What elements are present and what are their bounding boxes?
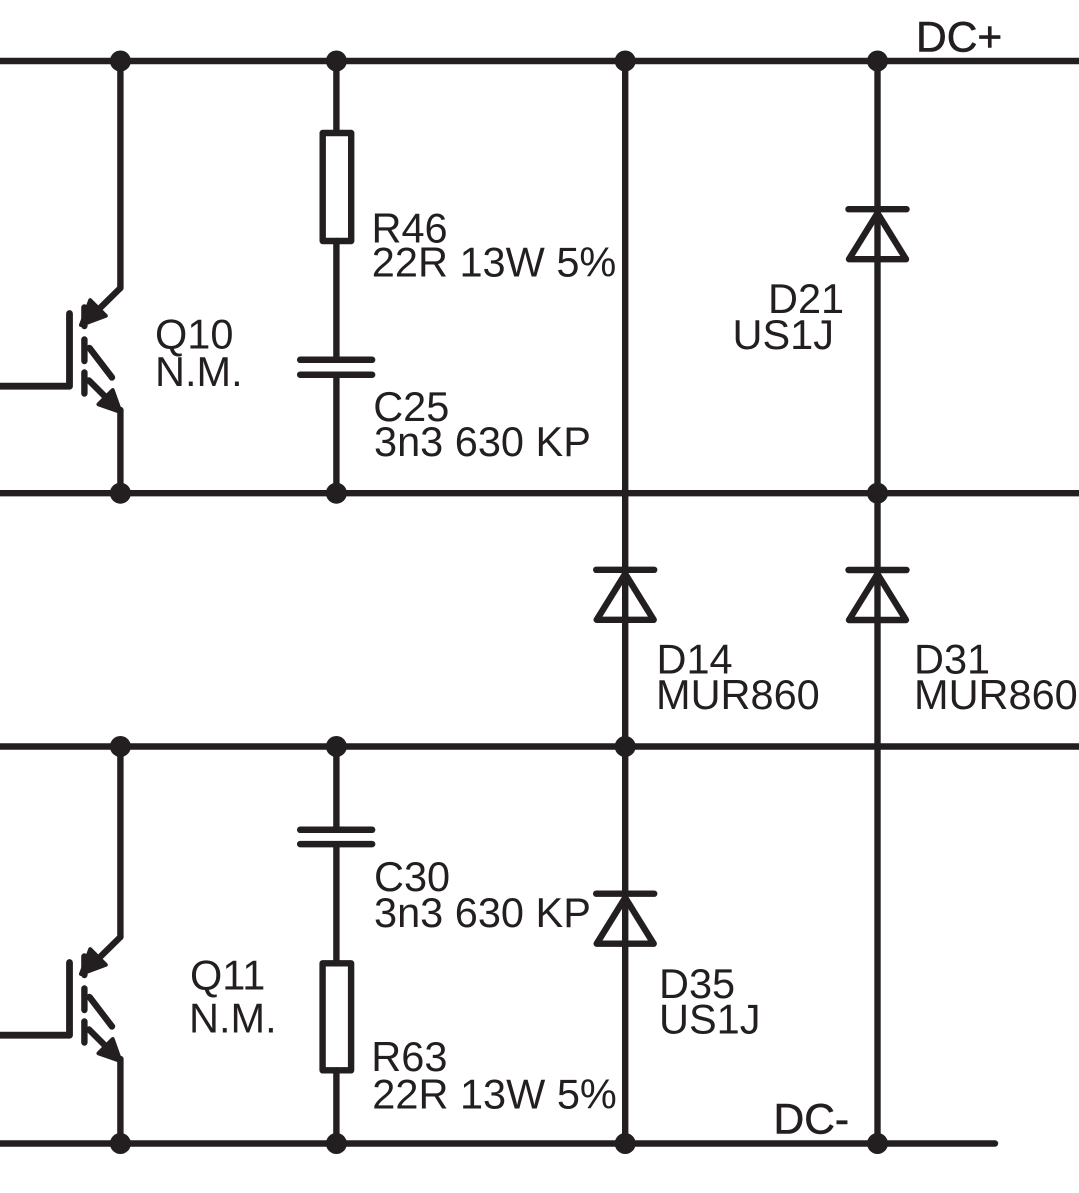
svg-text:N.M.: N.M. (155, 348, 243, 395)
junction rail2-colD (867, 483, 888, 504)
junction rail1-colC (615, 51, 636, 72)
junction rail1-colD (867, 51, 888, 72)
wire column D vertical (D21/D31 branch) (874, 61, 880, 1144)
diode D14 MUR860 (596, 570, 654, 620)
svg-text:Q11: Q11 (190, 952, 265, 999)
junction rail2-colA (110, 483, 131, 504)
junction rail3-colA (110, 736, 131, 757)
svg-text:US1J: US1J (733, 311, 834, 358)
capacitor C30 (300, 830, 372, 844)
diode D21 US1J (849, 209, 907, 259)
svg-text:MUR860: MUR860 (656, 671, 820, 718)
svg-text:3n3 630 KP: 3n3 630 KP (374, 889, 591, 936)
wire R46 to C25 (333, 241, 339, 357)
junction rail3-colC (615, 736, 636, 757)
transistor Q10 (IGBT, not mounted) (0, 61, 121, 493)
wire mid-lower rail (0, 743, 1079, 749)
junction rail2-colB (326, 483, 347, 504)
wire R63 bottom lead (333, 1070, 339, 1143)
junction rail3-colB (326, 736, 347, 757)
capacitor C25 (300, 360, 372, 375)
svg-text:MUR860: MUR860 (914, 671, 1078, 718)
svg-text:22R 13W 5%: 22R 13W 5% (372, 1071, 617, 1118)
wire C25 bottom lead (333, 378, 339, 493)
wire C30 to R63 (333, 847, 339, 963)
wire DC- rail (net DC-) (0, 1140, 995, 1146)
svg-text:DC+: DC+ (916, 14, 1002, 61)
junction rail1-colA (110, 51, 131, 72)
svg-text:N.M.: N.M. (189, 994, 277, 1041)
wire R46 top lead (333, 61, 339, 133)
svg-text:3n3 630 KP: 3n3 630 KP (374, 418, 591, 465)
svg-text:US1J: US1J (659, 996, 760, 1043)
diode D35 US1J (596, 894, 654, 944)
wire C30 top lead (333, 747, 339, 827)
resistor R46 (323, 133, 352, 241)
junction rail1-colB (326, 51, 347, 72)
wire DC+ rail (net DC+) (0, 58, 1079, 64)
junction rail4-colA (110, 1133, 131, 1154)
junction rail4-colC (615, 1133, 636, 1154)
svg-text:22R 13W 5%: 22R 13W 5% (372, 239, 617, 286)
wire mid-upper rail (0, 490, 1079, 496)
wire column C vertical (D14/D35 branch) (622, 61, 628, 1144)
junction rail4-colD (867, 1133, 888, 1154)
junction rail4-colB (326, 1133, 347, 1154)
diode D31 MUR860 (849, 570, 907, 620)
resistor R63 (323, 963, 352, 1070)
svg-text:DC-: DC- (774, 1097, 850, 1144)
transistor Q11 (IGBT, not mounted) (0, 746, 121, 1144)
